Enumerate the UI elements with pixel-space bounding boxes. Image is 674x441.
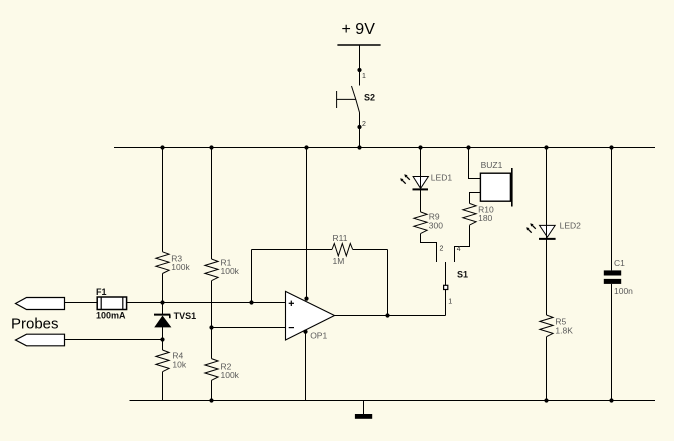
- BUZ1 label: [481, 160, 503, 170]
- node: V- pin dot: [303, 330, 307, 334]
- R5 label: [555, 317, 566, 327]
- R11 value 1M: [333, 256, 345, 266]
- R9 label: [429, 212, 440, 222]
- svg-text:LED2: LED2: [560, 221, 582, 231]
- svg-text:+ 9V: + 9V: [342, 21, 376, 38]
- wire rail to R1: [211, 148, 213, 260]
- svg-text:R11: R11: [333, 233, 348, 243]
- svg-text:4: 4: [457, 246, 461, 253]
- R2 label: [221, 362, 232, 372]
- node: LED2 rail junction: [544, 145, 548, 149]
- LED1 light arrows: [400, 174, 410, 183]
- node: output junction: [385, 313, 389, 317]
- TVS1 zener diode: [154, 315, 170, 327]
- LED2 light arrows: [526, 223, 536, 232]
- TVS1 label: [174, 311, 197, 321]
- svg-text:100k: 100k: [171, 262, 190, 272]
- resistor R4: [156, 350, 169, 372]
- +9V power label: [342, 21, 376, 38]
- wire probe1 to fuse: [65, 302, 98, 304]
- node: - input junction: [209, 325, 213, 329]
- S1 pin 2 label: [440, 246, 444, 253]
- op-amp OP1: [286, 291, 335, 340]
- bottom rail: [130, 400, 656, 402]
- buzzer BUZ1 wire from rail: [469, 148, 481, 179]
- wire +9V to S2 pin1: [359, 45, 361, 86]
- svg-text:2: 2: [362, 121, 366, 128]
- S2 pin 2 label: [362, 121, 366, 128]
- node: BUZ1 rail junction: [466, 145, 470, 149]
- svg-text:1M: 1M: [333, 256, 345, 266]
- node: R3 rail junction: [160, 145, 164, 149]
- F1 value 100mA: [96, 311, 126, 321]
- svg-text:BUZ1: BUZ1: [481, 160, 503, 170]
- wire R1 to R2: [211, 281, 213, 359]
- buzzer BUZ1: [480, 168, 511, 207]
- S1 pin 4 label: [457, 246, 461, 253]
- S2 pin 2 dot: [357, 125, 361, 129]
- wire junction to R4: [162, 340, 164, 351]
- resistor R1: [205, 259, 218, 281]
- feedback wire R11 to output: [353, 249, 388, 251]
- op-amp V+ supply wire: [306, 148, 308, 299]
- wire LED2 to R5: [546, 239, 548, 315]
- resistor R3: [156, 252, 169, 274]
- R3 value 100k: [171, 262, 190, 272]
- wire R4 to bottom rail: [162, 372, 164, 401]
- feedback wire down to output: [387, 250, 389, 316]
- S2 pin 1 label: [362, 73, 366, 80]
- svg-text:F1: F1: [96, 287, 107, 297]
- wire TVS1 to bottom junction: [162, 327, 164, 340]
- fuse F1: [97, 297, 126, 310]
- svg-text:100mA: 100mA: [96, 311, 126, 321]
- svg-text:100k: 100k: [221, 370, 240, 380]
- svg-text:2: 2: [440, 246, 444, 253]
- resistor R9: [414, 212, 427, 234]
- R4 label: [172, 351, 183, 361]
- node: R5 bottom rail junction: [544, 398, 548, 402]
- R9 value 300: [429, 221, 443, 231]
- op-amp output wire: [335, 315, 446, 317]
- wire BUZ1 to R10: [470, 193, 481, 204]
- LED2 diode: [539, 225, 556, 239]
- S1 pin 1 label: [448, 299, 452, 306]
- R10 value 180: [478, 213, 492, 223]
- svg-text:TVS1: TVS1: [174, 311, 197, 321]
- wire junction to TVS1: [162, 303, 164, 316]
- LED1 label: [431, 173, 453, 183]
- R10 label: [478, 205, 494, 215]
- node: + input / feedback junction: [249, 300, 253, 304]
- OP1 label: [310, 331, 327, 341]
- S2 pin 1 dot: [357, 68, 361, 72]
- R1 value 100k: [221, 266, 240, 276]
- feedback wire up from + junction: [251, 250, 253, 303]
- node: C1 rail junction: [609, 145, 613, 149]
- wire rail to R3: [162, 148, 164, 252]
- svg-text:OP1: OP1: [310, 331, 327, 341]
- R5 value 1.8K: [555, 326, 573, 336]
- R4 value 10k: [172, 360, 186, 370]
- svg-text:1: 1: [362, 73, 366, 80]
- svg-text:C1: C1: [614, 258, 625, 268]
- resistor R2: [205, 359, 218, 381]
- probe 2: [16, 334, 65, 346]
- svg-text:LED1: LED1: [431, 173, 453, 183]
- feedback wire to R11: [252, 249, 333, 251]
- S1 label: [457, 270, 468, 280]
- node: V+ pin dot: [304, 297, 308, 301]
- node: V+ rail junction: [304, 145, 308, 149]
- svg-text:S1: S1: [457, 270, 468, 280]
- svg-text:1: 1: [448, 299, 452, 306]
- wire rail to LED2: [546, 148, 548, 226]
- wire S1 common to output: [445, 290, 447, 316]
- wire fuse to op-amp + input: [127, 302, 286, 304]
- svg-text:100n: 100n: [614, 286, 633, 296]
- wire LED1 to R9: [420, 189, 422, 212]
- switch S2 button cap: [336, 91, 338, 108]
- op-amp V- supply wire: [305, 332, 307, 401]
- R11 label: [333, 233, 348, 243]
- wire S2 pin2 to rail: [359, 113, 361, 148]
- C1 label: [614, 258, 625, 268]
- resistor R11: [332, 244, 353, 256]
- wire R2 to bottom rail: [211, 380, 213, 400]
- node: R2 bottom rail junction: [209, 398, 213, 402]
- wire probe2 to TVS1 bottom junction: [65, 339, 163, 341]
- resistor R10: [463, 203, 476, 225]
- wire R9 to S1 pin2: [421, 234, 437, 262]
- top supply rail: [114, 147, 655, 149]
- node: TVS1/R4/probe2 junction: [160, 337, 164, 341]
- svg-text:100k: 100k: [221, 266, 240, 276]
- Probes label: [11, 316, 59, 333]
- svg-text:10k: 10k: [172, 360, 186, 370]
- switch S2 plunger: [337, 98, 356, 100]
- op-amp - symbol: [289, 327, 294, 329]
- resistor R5: [540, 315, 553, 337]
- wire rail to LED1: [420, 148, 422, 177]
- switch S1 lever: [445, 262, 447, 285]
- LED1 diode: [413, 177, 429, 190]
- R2 value 100k: [221, 370, 240, 380]
- node: R1 rail junction: [209, 145, 213, 149]
- node: LED1 rail junction: [418, 145, 422, 149]
- switch S2 lever: [352, 86, 360, 113]
- node: TVS1 top junction: [160, 300, 164, 304]
- capacitor C1: [604, 270, 621, 284]
- probe 1: [16, 298, 65, 310]
- LED2 label: [560, 221, 582, 231]
- ground: [355, 401, 372, 419]
- wire rail to C1: [611, 148, 613, 271]
- svg-text:S2: S2: [364, 93, 375, 103]
- R1 label: [221, 258, 232, 268]
- switch S1 pivot: [444, 285, 448, 289]
- op-amp + symbol: [289, 301, 294, 306]
- F1 label: [96, 287, 107, 297]
- wire R10 to S1 pin4: [455, 225, 470, 262]
- svg-text:180: 180: [478, 213, 492, 223]
- R3 label: [171, 254, 182, 264]
- C1 value 100n: [614, 286, 633, 296]
- node: S2/rail junction: [357, 145, 361, 149]
- wire - input to op-amp: [212, 327, 286, 329]
- +9V power bar: [337, 44, 380, 46]
- svg-text:1.8K: 1.8K: [555, 326, 573, 336]
- node: C1 bottom rail junction: [609, 398, 613, 402]
- svg-text:Probes: Probes: [11, 316, 59, 333]
- wire R3 to junction: [162, 274, 164, 303]
- wire C1 to bottom rail: [611, 284, 613, 401]
- wire R5 to bottom rail: [546, 337, 548, 401]
- S2 label: [364, 93, 375, 103]
- svg-text:300: 300: [429, 221, 443, 231]
